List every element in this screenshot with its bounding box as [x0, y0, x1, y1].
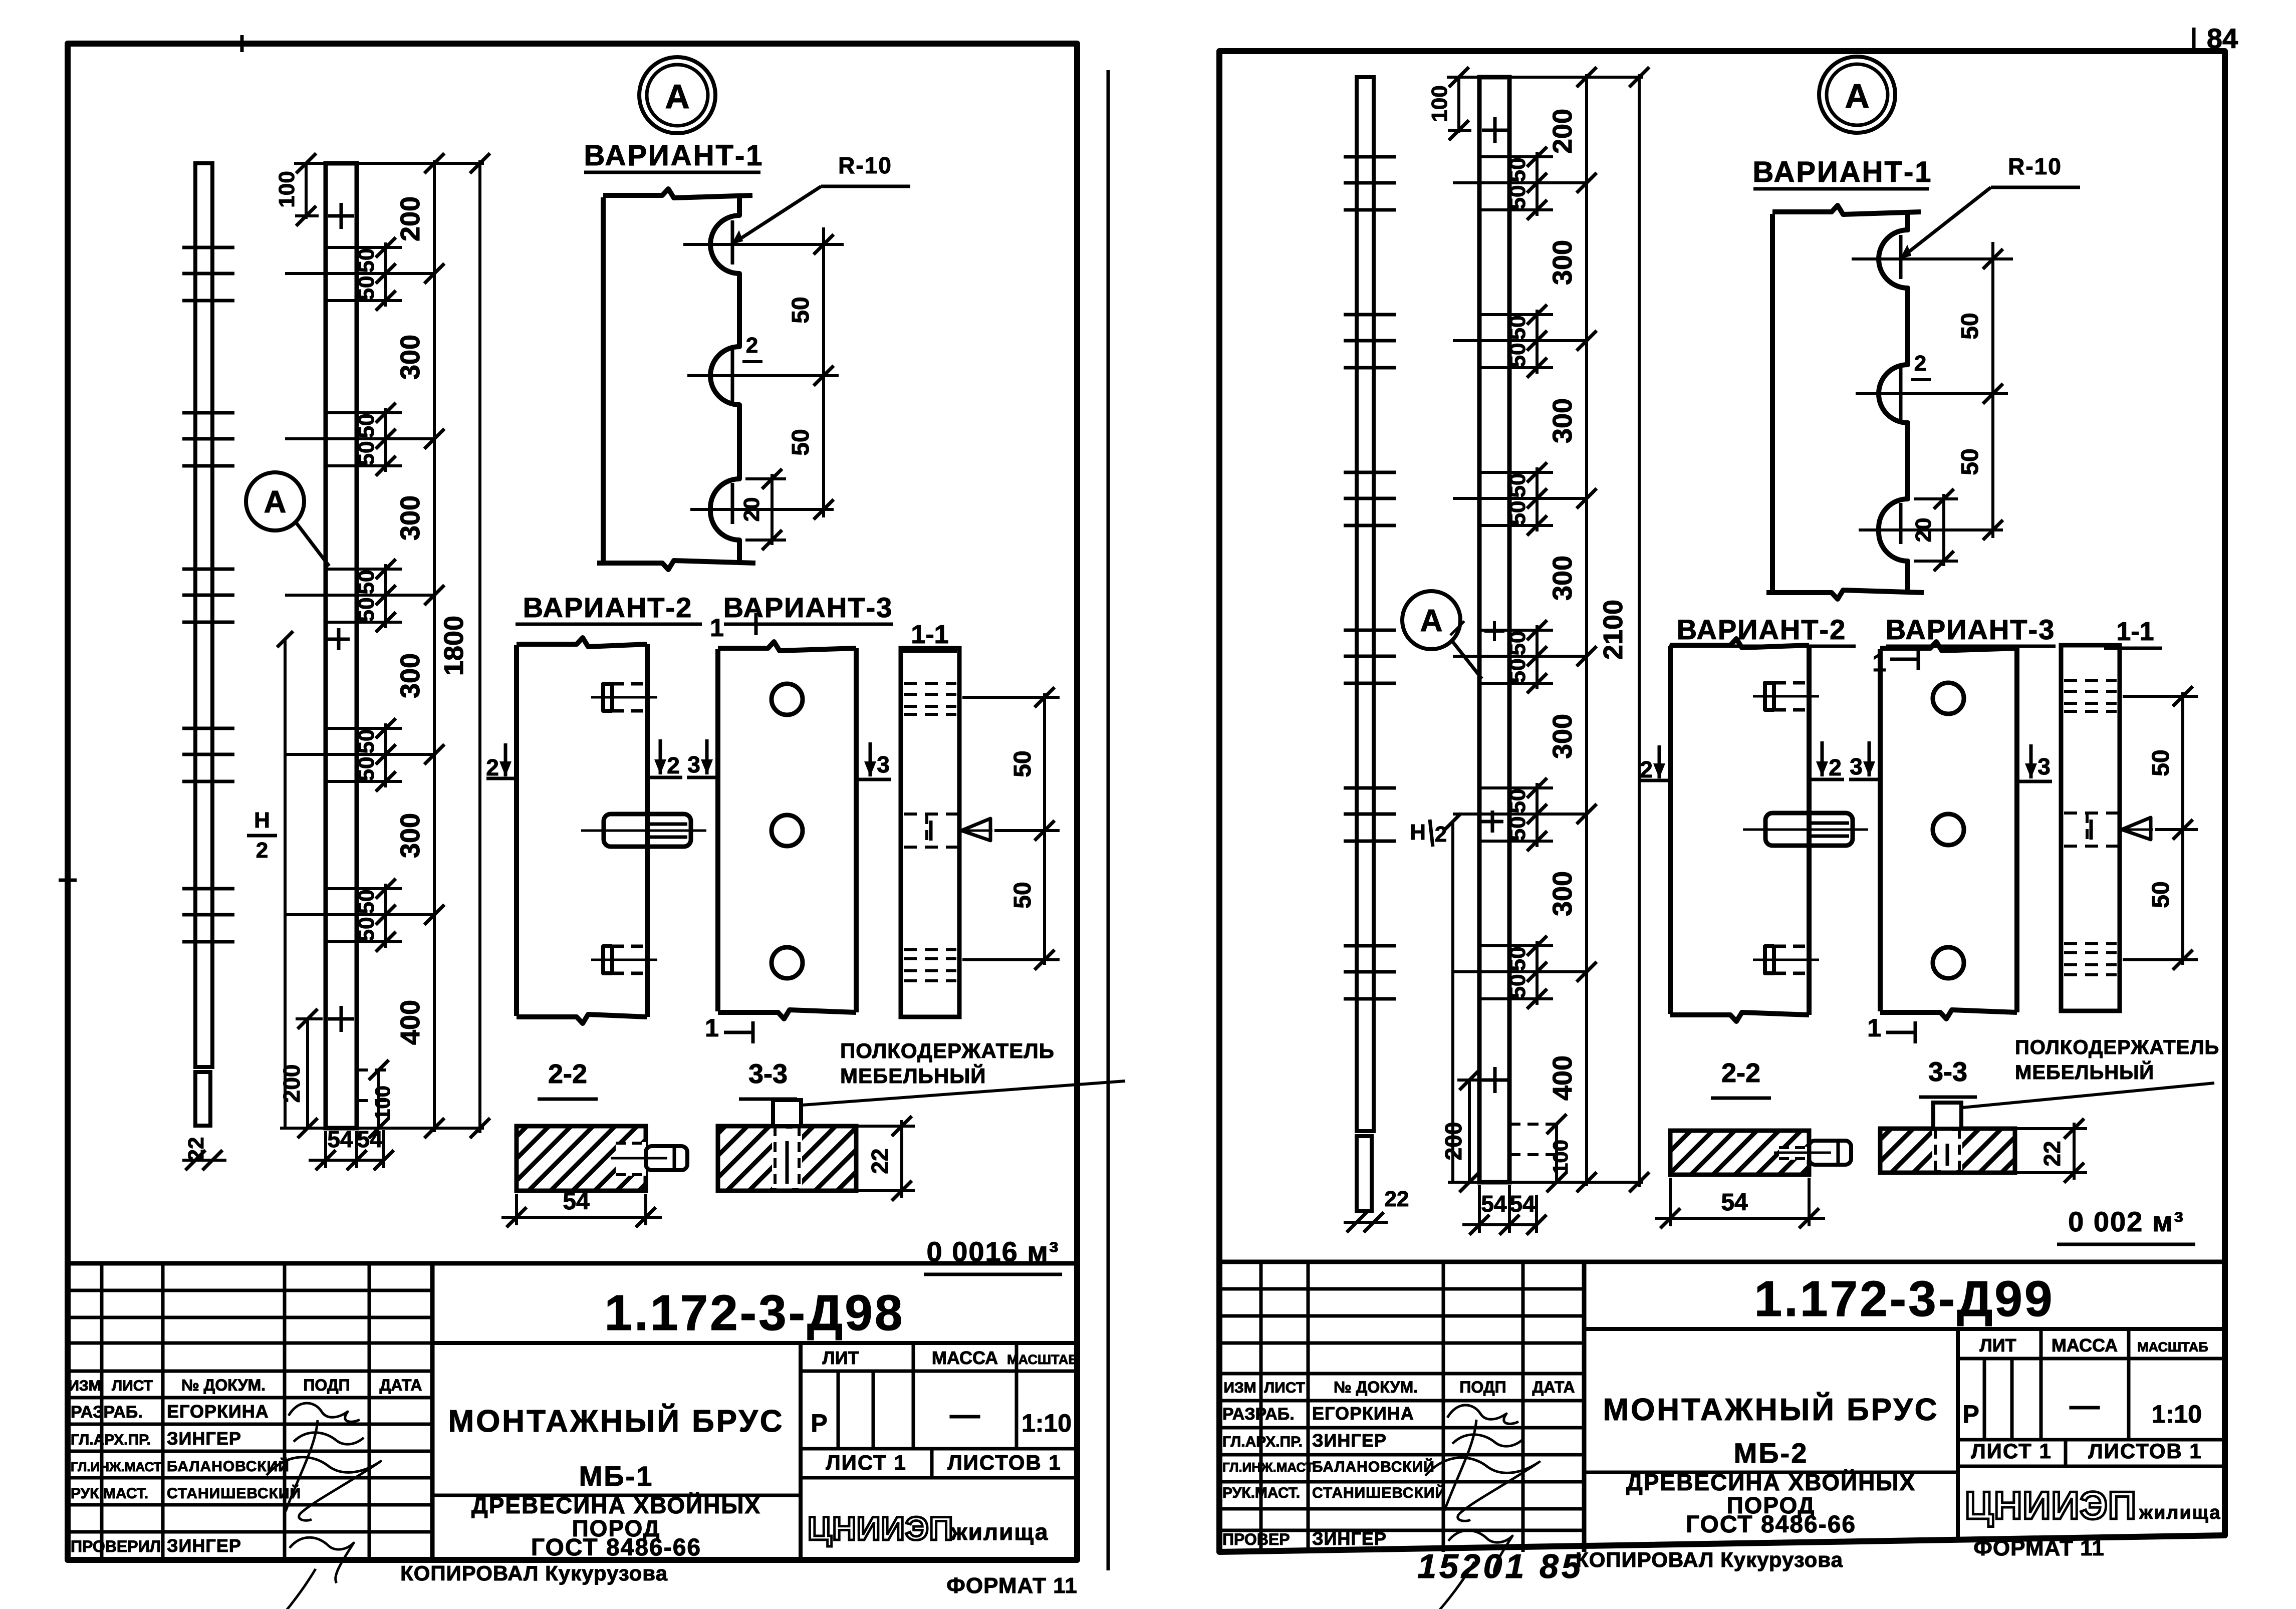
svg-text:А: А [264, 485, 287, 519]
top extension line [1447, 76, 1643, 79]
svg-text:1: 1 [1867, 1014, 1881, 1042]
svg-text:2: 2 [256, 838, 268, 863]
shelf holder pin wedge [2122, 818, 2151, 840]
section cut 2 mark right [659, 739, 662, 774]
svg-text:50: 50 [354, 441, 379, 466]
svg-text:ЦНИИЭП: ЦНИИЭП [808, 1510, 953, 1547]
svg-text:№ ДОКУМ.: № ДОКУМ. [1334, 1378, 1418, 1396]
svg-text:ГОСТ 8486-66: ГОСТ 8486-66 [1686, 1511, 1856, 1538]
svg-text:ПРОВЕРИЛ: ПРОВЕРИЛ [71, 1537, 161, 1555]
svg-text:КОПИРОВАЛ Кукурузова: КОПИРОВАЛ Кукурузова [400, 1561, 668, 1585]
dimension 100 from top [305, 163, 308, 219]
beam side view broken-off bottom piece [1357, 1136, 1372, 1211]
VARIANT-1 plate outline with notches [1770, 214, 1775, 591]
notch 2 center cross [731, 350, 734, 402]
svg-text:РУК.МАСТ.: РУК.МАСТ. [71, 1485, 148, 1502]
svg-text:50: 50 [354, 570, 379, 595]
svg-text:2: 2 [1829, 754, 1842, 780]
section 1-1 dashed hole bands bottom [2064, 942, 2117, 945]
svg-text:300: 300 [1548, 556, 1578, 601]
svg-text:—: — [2070, 1389, 2100, 1422]
svg-text:1800: 1800 [439, 616, 469, 676]
dimension 200 at bottom [306, 1019, 309, 1128]
svg-text:2-2: 2-2 [548, 1059, 587, 1089]
section 2-2 hatched cross-section [1670, 1131, 1809, 1175]
dimension 50 50 column at notches [822, 227, 825, 517]
detail view A callout circle [246, 472, 304, 530]
dimension 22 under side view [1344, 1221, 1388, 1224]
svg-text:300: 300 [1548, 398, 1578, 443]
shelf holder square on section 3-3 [773, 1100, 801, 1126]
svg-text:50: 50 [788, 297, 814, 323]
sheet separator fold line [1107, 70, 1110, 1570]
dowel bottom (dashed) with head [1774, 945, 1809, 948]
svg-text:Р: Р [1962, 1400, 1979, 1428]
list row [1958, 1438, 2225, 1442]
svg-text:50: 50 [354, 729, 379, 754]
svg-text:300: 300 [395, 495, 425, 541]
svg-text:50: 50 [1957, 448, 1983, 475]
hole circle top [1933, 683, 1964, 714]
svg-text:2-2: 2-2 [1721, 1058, 1760, 1088]
beam side view hole tick marks [182, 246, 234, 249]
svg-text:200: 200 [279, 1064, 305, 1103]
svg-text:300: 300 [1548, 714, 1578, 759]
svg-text:2: 2 [1435, 822, 1447, 847]
svg-text:1-1: 1-1 [2116, 617, 2154, 646]
segment dimension line (200/300/400) [433, 160, 436, 1132]
H/2 extension line with label [284, 639, 287, 1128]
dimension 54 54 under front view [309, 1159, 385, 1162]
front view mounting hole cross bottom [328, 1017, 354, 1021]
svg-text:жилища: жилища [2139, 1502, 2221, 1523]
svg-text:3: 3 [2037, 753, 2051, 779]
svg-text:54: 54 [327, 1126, 353, 1152]
svg-text:1: 1 [710, 614, 724, 642]
svg-text:ДРЕВЕСИНА ХВОЙНЫХ: ДРЕВЕСИНА ХВОЙНЫХ [471, 1492, 761, 1518]
svg-text:МАСШТАБ: МАСШТАБ [2137, 1339, 2208, 1355]
svg-text:ВАРИАНТ-3: ВАРИАНТ-3 [723, 592, 893, 623]
svg-text:ЕГОРКИНА: ЕГОРКИНА [167, 1401, 269, 1422]
svg-text:100: 100 [275, 171, 299, 207]
svg-text:1.172-3-Д98: 1.172-3-Д98 [605, 1285, 905, 1341]
svg-text:50: 50 [1505, 631, 1530, 656]
svg-text:ЗИНГЕР: ЗИНГЕР [167, 1428, 241, 1449]
hole circle bottom [1933, 947, 1964, 978]
overall length dimension line [1638, 74, 1641, 1187]
section 2-2 tenon hole dashed [1779, 1147, 1809, 1160]
svg-text:200: 200 [395, 196, 425, 241]
svg-text:МБ-1: МБ-1 [579, 1460, 654, 1492]
section 1-1 dimension 50 50 [2181, 692, 2184, 965]
svg-text:ПРОВЕР: ПРОВЕР [1222, 1530, 1290, 1548]
view A marker circle (top) [639, 57, 715, 133]
svg-text:ЛИТ: ЛИТ [1979, 1335, 2016, 1356]
object name MONTAZHNYJ BRUS [432, 1494, 801, 1497]
svg-text:50: 50 [354, 248, 379, 273]
svg-text:ПОДП: ПОДП [303, 1376, 350, 1394]
svg-text:ЛИСТОВ 1: ЛИСТОВ 1 [2088, 1439, 2202, 1463]
beam MB front view (bar) [1479, 77, 1509, 1182]
svg-text:Р: Р [811, 1409, 827, 1437]
top extension line [294, 162, 484, 165]
sheet 1 border frame [68, 44, 1077, 1560]
svg-text:2100: 2100 [1598, 600, 1628, 660]
svg-text:50: 50 [1957, 313, 1983, 339]
VARIANT-2 plate outline [514, 645, 519, 1016]
tenon middle (through, sticks out) [1765, 813, 1853, 846]
section cut 2 mark right [1821, 741, 1824, 776]
detail A leader line [1452, 641, 1482, 679]
svg-text:ПОЛКОДЕРЖАТЕЛЬ: ПОЛКОДЕРЖАТЕЛЬ [840, 1039, 1055, 1062]
VARIANT-3 plate outline [715, 649, 720, 1011]
svg-text:22: 22 [867, 1148, 893, 1174]
dimension 100 at bottom with dashed lines [1555, 1124, 1558, 1182]
section 3-3 dowel channel [772, 1129, 802, 1188]
svg-text:400: 400 [1548, 1055, 1578, 1101]
svg-text:1.172-3-Д99: 1.172-3-Д99 [1754, 1271, 2055, 1327]
svg-text:300: 300 [395, 813, 425, 858]
bottom extension line [1448, 1181, 1643, 1184]
svg-text:ПОЛКОДЕРЖАТЕЛЬ: ПОЛКОДЕРЖАТЕЛЬ [2015, 1036, 2219, 1058]
svg-text:ДАТА: ДАТА [1533, 1378, 1575, 1396]
section 2-2 width dimension 54 [515, 1194, 518, 1225]
svg-text:ЛИСТ: ЛИСТ [1264, 1380, 1305, 1396]
svg-text:ФОРМАТ 11: ФОРМАТ 11 [946, 1573, 1077, 1598]
section 3-3 height dimension 22 [858, 1125, 915, 1128]
dimension 50 50 column at notches [1991, 242, 1994, 538]
shelf holder leader line [802, 1081, 1125, 1105]
VARIANT-3 plate outline [1878, 649, 1883, 1011]
section 1-1 dashed hole bands top [2064, 679, 2117, 682]
dowel top (dashed) with head [612, 682, 647, 686]
svg-text:200: 200 [1440, 1122, 1466, 1161]
50/50 spacing dimension column [384, 242, 387, 307]
LIT MASSA MASSHTAB header [799, 1343, 803, 1560]
svg-text:ЗИНГЕР: ЗИНГЕР [1312, 1430, 1387, 1451]
svg-text:МОНТАЖНЫЙ БРУС: МОНТАЖНЫЙ БРУС [448, 1404, 784, 1439]
section cut 3 mark right [869, 742, 872, 776]
svg-text:50: 50 [1505, 789, 1530, 814]
list row [801, 1447, 1077, 1451]
section 3-3 height dimension 22 [2017, 1127, 2087, 1130]
svg-text:50: 50 [1505, 316, 1530, 340]
hole group extension lines [1453, 181, 1587, 184]
hole circle bottom [772, 947, 803, 978]
title block outline top [68, 1261, 1077, 1266]
svg-text:СТАНИШЕВСКИЙ: СТАНИШЕВСКИЙ [167, 1485, 301, 1502]
svg-text:0 002 м³: 0 002 м³ [2068, 1206, 2184, 1237]
svg-text:ЕГОРКИНА: ЕГОРКИНА [1312, 1403, 1414, 1424]
svg-text:15201 85: 15201 85 [1417, 1547, 1584, 1585]
shelf holder pin wedge [961, 819, 990, 841]
svg-text:R-10: R-10 [2008, 153, 2062, 179]
svg-text:1:10: 1:10 [1022, 1409, 1072, 1437]
svg-text:ВАРИАНТ-3: ВАРИАНТ-3 [1886, 614, 2056, 645]
svg-text:R-10: R-10 [838, 152, 892, 178]
section 2-2 tenon sticking out [646, 1146, 687, 1170]
literal cells with P [837, 1371, 840, 1449]
svg-text:1: 1 [705, 1014, 719, 1042]
svg-text:100: 100 [1427, 85, 1452, 122]
svg-text:22: 22 [184, 1137, 208, 1162]
svg-text:ВАРИАНТ-1: ВАРИАНТ-1 [1752, 156, 1932, 188]
LIT MASSA MASSHTAB header [1956, 1329, 1960, 1539]
dimension 100 at bottom with dashed lines [377, 1070, 380, 1128]
svg-text:54: 54 [1509, 1191, 1536, 1217]
svg-text:А: А [665, 78, 689, 116]
svg-text:А: А [1845, 77, 1869, 115]
svg-text:ЗИНГЕР: ЗИНГЕР [167, 1535, 241, 1556]
svg-text:54: 54 [1721, 1189, 1748, 1216]
svg-text:50: 50 [1009, 750, 1036, 777]
svg-text:МОНТАЖНЫЙ БРУС: МОНТАЖНЫЙ БРУС [1603, 1392, 1939, 1427]
svg-text:ГЛ.АРХ.ПР.: ГЛ.АРХ.ПР. [1222, 1434, 1303, 1450]
svg-text:СТАНИШЕВСКИЙ: СТАНИШЕВСКИЙ [1312, 1484, 1446, 1501]
title block main divider [1582, 1262, 1587, 1552]
literal cells with P [1983, 1359, 1986, 1440]
section 3-3 hatched cross-section [1880, 1129, 2015, 1173]
svg-text:РАЗРАБ.: РАЗРАБ. [71, 1403, 143, 1422]
H/2 extension line with label [1451, 822, 1454, 1182]
section 3-3 hatched cross-section [718, 1126, 856, 1191]
section cut 3 mark right [2029, 744, 2033, 778]
notch 2 center cross [1899, 368, 1903, 420]
svg-text:ЛИСТ 1: ЛИСТ 1 [826, 1451, 907, 1474]
svg-text:МЕБЕЛЬНЫЙ: МЕБЕЛЬНЫЙ [840, 1063, 986, 1088]
dimension 200 at bottom [1468, 1080, 1471, 1182]
svg-text:МБ-2: МБ-2 [1734, 1437, 1809, 1469]
svg-text:№ ДОКУМ.: № ДОКУМ. [181, 1376, 266, 1394]
svg-text:84: 84 [2207, 23, 2238, 54]
section 1-1 dimension 50 50 [1043, 693, 1046, 965]
svg-text:МЕБЕЛЬНЫЙ: МЕБЕЛЬНЫЙ [2015, 1060, 2154, 1084]
svg-text:ЛИСТ: ЛИСТ [112, 1378, 153, 1394]
dowel bottom (dashed) with head [612, 945, 647, 948]
fold mark on left border [59, 879, 77, 882]
svg-text:50: 50 [2148, 881, 2174, 908]
svg-text:ВАРИАНТ-1: ВАРИАНТ-1 [584, 139, 763, 172]
section 3-3 dowel channel [1932, 1131, 1962, 1170]
svg-text:50: 50 [354, 414, 379, 438]
svg-text:ЦНИИЭП: ЦНИИЭП [1965, 1483, 2137, 1527]
notch 1 center cross [1899, 235, 1903, 279]
document number cell [1584, 1327, 2225, 1331]
svg-text:200: 200 [1548, 109, 1578, 154]
svg-text:300: 300 [395, 653, 425, 698]
svg-text:ЗИНГЕР: ЗИНГЕР [1312, 1528, 1387, 1549]
svg-text:ПОДП: ПОДП [1459, 1378, 1506, 1396]
svg-text:3: 3 [877, 751, 890, 777]
front view mounting hole cross top [328, 214, 354, 218]
section 1-1 dashed hole bands top [904, 682, 956, 685]
notch 1 center cross [731, 220, 734, 264]
svg-text:ДРЕВЕСИНА ХВОЙНЫХ: ДРЕВЕСИНА ХВОЙНЫХ [1626, 1469, 1916, 1495]
hole circle top [772, 684, 803, 715]
beam MB side view (thin bar) [1357, 77, 1374, 1131]
svg-text:ГЛ.ИНЖ.МАСТ: ГЛ.ИНЖ.МАСТ [1222, 1460, 1314, 1475]
svg-text:—: — [950, 1398, 980, 1431]
svg-text:ФОРМАТ 11: ФОРМАТ 11 [1973, 1536, 2104, 1560]
beam side view hole tick marks [1344, 155, 1396, 159]
svg-text:50: 50 [1505, 158, 1530, 182]
shelf holder square on section 3-3 [1933, 1103, 1961, 1129]
dimension 54 54 under front view [1462, 1223, 1538, 1226]
svg-text:54: 54 [357, 1126, 383, 1152]
title block left table columns [1259, 1262, 1263, 1552]
notch 3 center line [1899, 503, 1903, 544]
svg-text:1-1: 1-1 [911, 620, 948, 649]
svg-text:50: 50 [354, 757, 379, 781]
svg-text:ДАТА: ДАТА [380, 1376, 422, 1394]
svg-text:ИЗМ: ИЗМ [1223, 1380, 1256, 1396]
svg-text:МАССА: МАССА [2052, 1335, 2118, 1356]
notch 3 center line [731, 483, 734, 524]
svg-text:3-3: 3-3 [748, 1059, 788, 1089]
section 1-1 outline [901, 648, 959, 1017]
svg-text:50: 50 [1505, 501, 1530, 525]
svg-text:ВАРИАНТ-2: ВАРИАНТ-2 [1677, 614, 1847, 645]
svg-text:300: 300 [1548, 871, 1578, 916]
svg-text:1:10: 1:10 [2152, 1400, 2202, 1428]
document number cell [432, 1341, 1077, 1345]
svg-text:ЛИСТ 1: ЛИСТ 1 [1971, 1439, 2052, 1463]
section 1-1 dashed hole bands bottom [904, 948, 956, 951]
svg-text:РАЗРАБ.: РАЗРАБ. [1222, 1405, 1295, 1424]
svg-text:22: 22 [2039, 1141, 2065, 1166]
section 1-1 middle dashed socket [2064, 812, 2118, 815]
detail A leader line [296, 522, 329, 566]
svg-text:50: 50 [354, 890, 379, 914]
50/50 spacing dimension column [1536, 152, 1539, 216]
svg-text:ЛИТ: ЛИТ [822, 1348, 859, 1368]
svg-text:50: 50 [1009, 882, 1036, 908]
svg-text:50: 50 [354, 917, 379, 942]
page number 84 [2192, 28, 2196, 54]
svg-text:H: H [1410, 820, 1426, 845]
section 2-2 tenon sticking out [1809, 1141, 1851, 1165]
dimension 20 at notch 3 [1942, 494, 1945, 566]
front view mounting hole cross top [1482, 129, 1508, 132]
handwritten signatures [1447, 1405, 1518, 1424]
svg-text:2: 2 [1640, 756, 1653, 782]
svg-text:50: 50 [1505, 473, 1530, 498]
view A marker circle (top, sheet 2) [1819, 57, 1895, 133]
beam MB front view (bar) [326, 163, 357, 1128]
svg-text:ЛИСТОВ 1: ЛИСТОВ 1 [947, 1451, 1062, 1474]
svg-text:2: 2 [1914, 351, 1926, 376]
front view mounting hole cross bottom [1482, 1079, 1508, 1082]
svg-text:ВАРИАНТ-2: ВАРИАНТ-2 [523, 592, 693, 623]
svg-text:50: 50 [1505, 817, 1530, 841]
detail view A callout circle [1402, 591, 1460, 649]
hole group extension lines [285, 272, 434, 275]
svg-text:ГЛ.ИНЖ.МАСТ: ГЛ.ИНЖ.МАСТ [71, 1459, 162, 1474]
shelf holder leader line [1962, 1083, 2214, 1108]
section 1-1 middle dashed socket [904, 813, 957, 816]
svg-text:3: 3 [1850, 753, 1863, 779]
dimension 100 from top [1457, 77, 1460, 133]
svg-text:100: 100 [371, 1086, 394, 1121]
segment dimension line (200/300/400) [1585, 74, 1588, 1186]
fold mark on top border [240, 35, 244, 52]
svg-text:2: 2 [746, 333, 758, 358]
title block left table rows [68, 1289, 432, 1292]
svg-text:100: 100 [1549, 1140, 1572, 1175]
handwritten signatures [289, 1403, 360, 1422]
svg-text:50: 50 [1505, 659, 1530, 683]
svg-text:БАЛАНОВСКИЙ: БАЛАНОВСКИЙ [1312, 1458, 1435, 1475]
svg-text:РУК.МАСТ.: РУК.МАСТ. [1222, 1485, 1300, 1501]
VARIANT-2 plate outline [1668, 646, 1673, 1014]
bottom extension line [280, 1127, 484, 1130]
svg-text:3-3: 3-3 [1928, 1057, 1967, 1087]
hole circle middle [1933, 814, 1964, 845]
dimension 20 at notch 3 [771, 474, 774, 545]
svg-text:50: 50 [354, 598, 379, 622]
VARIANT-1 plate outline with notches [601, 197, 606, 561]
dowel top (dashed) with head [1774, 681, 1809, 685]
svg-text:2: 2 [667, 752, 680, 778]
svg-text:50: 50 [788, 429, 814, 455]
beam side view broken-off bottom piece [195, 1072, 210, 1126]
sheet 2 border frame [1219, 51, 2225, 1552]
svg-text:50: 50 [354, 276, 379, 301]
title block left table columns [100, 1263, 104, 1560]
overall length dimension line [478, 160, 481, 1133]
svg-text:ИЗМ: ИЗМ [68, 1378, 101, 1394]
object name MONTAZHNYJ BRUS [1584, 1471, 1958, 1474]
svg-text:H: H [254, 808, 270, 833]
title block left table rows [1219, 1287, 1584, 1291]
hole circle middle [772, 815, 803, 846]
svg-text:ГОСТ 8486-66: ГОСТ 8486-66 [531, 1534, 701, 1561]
section 1-1 outline [2061, 645, 2120, 1011]
svg-text:300: 300 [1548, 240, 1578, 285]
section 2-2 width dimension 54 [1669, 1178, 1672, 1226]
svg-text:50: 50 [1505, 947, 1530, 971]
svg-text:54: 54 [1481, 1191, 1507, 1217]
section 2-2 hatched cross-section [517, 1126, 646, 1191]
svg-text:3: 3 [687, 751, 700, 777]
beam MB side view (thin bar) [195, 163, 212, 1067]
svg-text:50: 50 [1505, 185, 1530, 210]
svg-text:МАССА: МАССА [932, 1348, 998, 1368]
svg-text:2: 2 [486, 754, 499, 780]
dimension 22 under side view [182, 1159, 226, 1162]
svg-text:22: 22 [1385, 1187, 1409, 1211]
title block main divider [430, 1263, 435, 1560]
tenon middle (through, sticks out) [604, 814, 691, 847]
svg-text:400: 400 [395, 1000, 425, 1045]
title block outline top [1219, 1260, 2225, 1264]
svg-text:50: 50 [1505, 343, 1530, 368]
svg-text:ГЛ.АРХ.ПР.: ГЛ.АРХ.ПР. [71, 1432, 151, 1448]
svg-text:54: 54 [563, 1188, 590, 1215]
svg-text:жилища: жилища [950, 1519, 1049, 1545]
svg-text:КОПИРОВАЛ Кукурузова: КОПИРОВАЛ Кукурузова [1576, 1548, 1843, 1571]
svg-text:300: 300 [395, 335, 425, 380]
section 2-2 tenon hole dashed [616, 1142, 646, 1176]
svg-text:А: А [1420, 604, 1443, 638]
svg-text:50: 50 [1505, 974, 1530, 999]
svg-text:50: 50 [2148, 749, 2174, 776]
